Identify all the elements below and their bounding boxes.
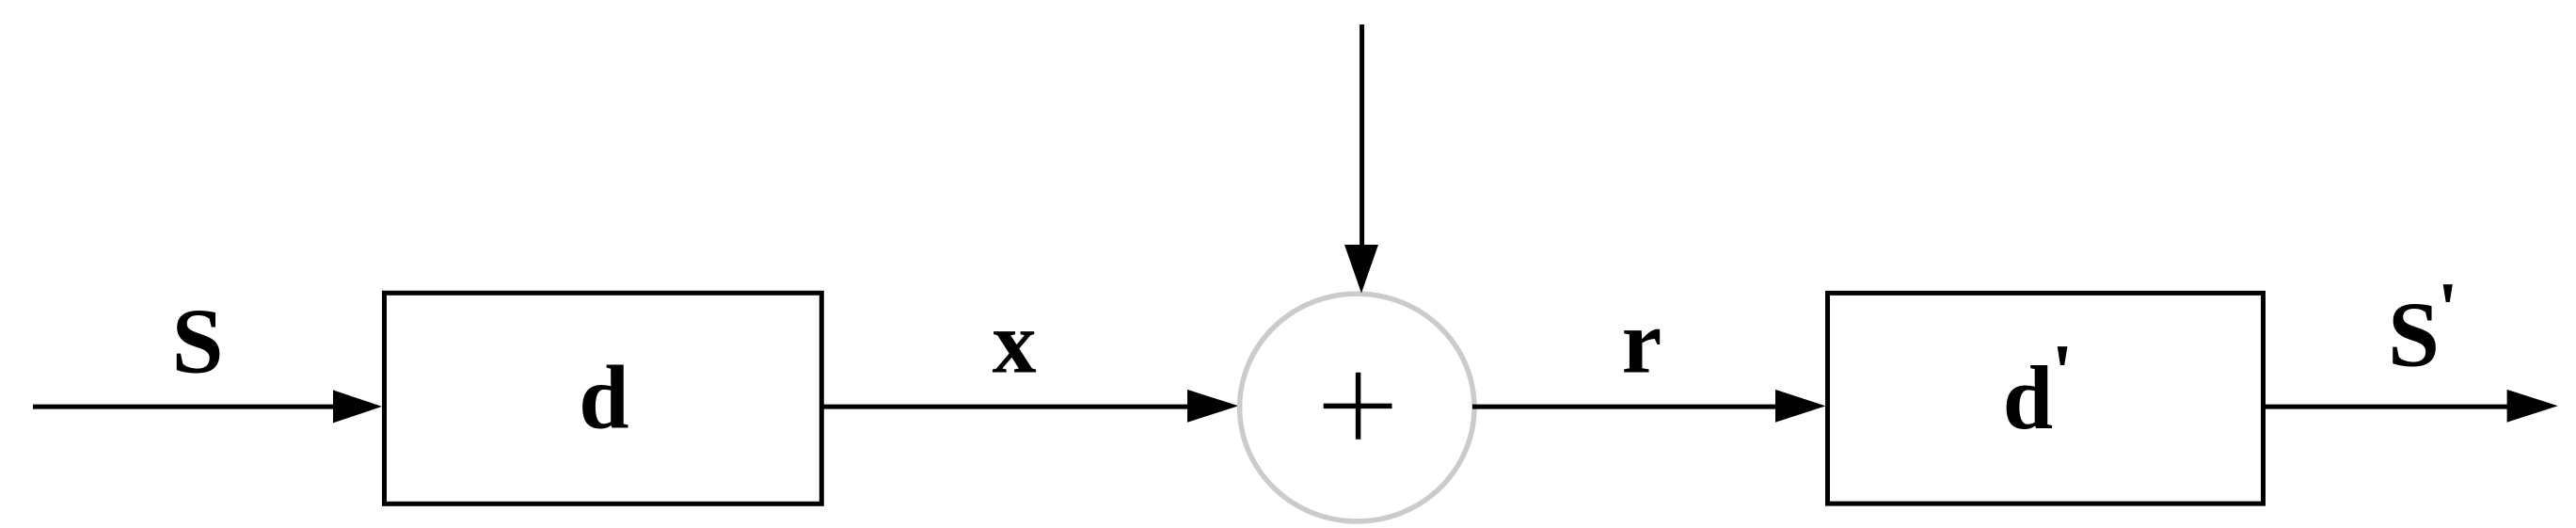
wire: x line from block d to summing junction (822, 405, 1190, 409)
wire: r line from summing junction to block d' (1472, 405, 1777, 409)
summing junction circle (1240, 294, 1474, 521)
svg-text:d: d (579, 347, 628, 448)
svg-text:': ' (2051, 328, 2074, 417)
arrowhead: noise into summing junction (1344, 245, 1378, 294)
block d' (decoder box) (1828, 293, 2264, 504)
svg-text:x: x (993, 295, 1037, 392)
arrowhead: into summing junction (1187, 390, 1238, 423)
svg-text:r: r (1622, 292, 1662, 392)
arrowhead: into block d' (1775, 390, 1826, 423)
svg-text:': ' (2438, 268, 2458, 351)
wire: noise input vertical line (1360, 24, 1364, 247)
arrowhead: output (2507, 390, 2558, 423)
plus sign horizontal bar (1324, 404, 1392, 409)
plus sign vertical bar (1356, 373, 1361, 440)
arrowhead: input into block d (333, 390, 382, 423)
svg-text:S: S (2388, 283, 2440, 386)
wire: input S line (33, 405, 337, 409)
block d (encoder box) (385, 293, 822, 504)
wire: output S' line (2264, 405, 2510, 409)
svg-text:d: d (2003, 347, 2053, 448)
svg-text:S: S (172, 291, 224, 393)
